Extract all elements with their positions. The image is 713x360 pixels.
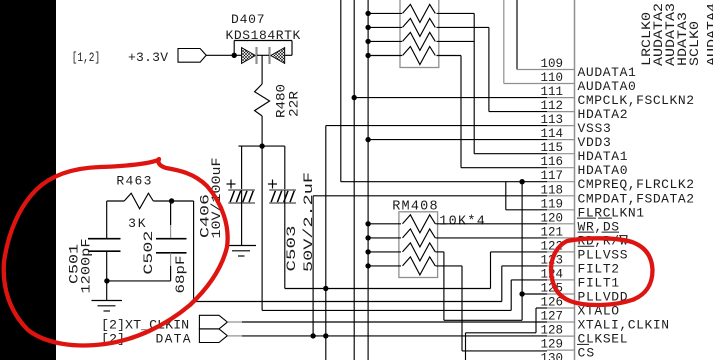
label 68pF xyxy=(173,256,188,294)
pin 118 stub xyxy=(547,195,575,197)
wire RM407 r1 to pin 115 xyxy=(437,13,548,153)
IC U401 left border xyxy=(574,0,576,360)
pin number 122 xyxy=(541,239,564,253)
connector XT_CLKIN xyxy=(199,315,227,329)
pin 126 stub xyxy=(547,307,575,309)
node A (+3.3V filtered) xyxy=(259,143,264,148)
svg-text:D407: D407 xyxy=(231,12,265,27)
label D407 xyxy=(231,12,265,27)
pin number 113 xyxy=(541,113,564,127)
pin number 126 xyxy=(541,296,564,310)
wire R463 right xyxy=(153,200,193,202)
svg-text:1200pF: 1200pF xyxy=(79,239,94,294)
pin number 118 xyxy=(541,183,564,197)
svg-text:+3.3V: +3.3V xyxy=(128,50,168,65)
junction RM408 row 1 xyxy=(365,221,370,226)
ground C501 xyxy=(92,301,123,312)
pin number 124 xyxy=(541,267,564,281)
pin 111 name CMPCLK,FSCLKN2 xyxy=(578,93,695,108)
IC top pin label AUDATA4 xyxy=(704,3,713,66)
wire node A drop xyxy=(261,146,263,310)
junction RM407 row 2 xyxy=(365,25,370,30)
svg-text:AUDATA4: AUDATA4 xyxy=(704,3,713,66)
label C406 xyxy=(198,194,213,238)
wire RM408 r4 to CS xyxy=(436,266,548,351)
ground C406 xyxy=(226,246,256,257)
resistor pack RM408 element 2 xyxy=(403,229,436,247)
pin number 109 xyxy=(541,57,564,71)
diode D407a (left half) xyxy=(242,48,256,64)
diode D407b (right half) xyxy=(271,48,285,64)
label R480 xyxy=(274,84,289,118)
wire RM407 r2 to pin 112 xyxy=(437,27,548,111)
svg-text:AUDATA1: AUDATA1 xyxy=(578,65,636,80)
wire C501 down xyxy=(106,251,108,300)
pin 121 name RD,R/W xyxy=(578,233,628,248)
svg-text:68pF: 68pF xyxy=(173,256,188,294)
capacitor C503 xyxy=(269,190,296,203)
label [1,2] xyxy=(72,51,101,65)
wire DATA to pin 128 xyxy=(227,335,547,337)
pin number 120 xyxy=(541,211,564,225)
wire FILT2 riser xyxy=(502,266,547,302)
pin 116 stub xyxy=(547,167,575,169)
wire node to C503 xyxy=(284,146,286,190)
wire RM407 row 3 left xyxy=(368,40,402,42)
IC top pin label SCLK0 xyxy=(687,21,702,66)
svg-text:127: 127 xyxy=(541,310,564,324)
power arrow symbol +3.3V xyxy=(178,49,206,63)
svg-text:130: 130 xyxy=(541,352,564,360)
wire FILT1 riser xyxy=(511,280,547,311)
wire D407 anode loop xyxy=(234,41,292,56)
pin 125 stub xyxy=(547,293,575,295)
wire node A horizontal xyxy=(238,145,284,147)
pin 112 stub xyxy=(547,111,575,113)
wire C501-C502 bottom link xyxy=(107,280,171,282)
label 10V/100uF xyxy=(209,158,224,239)
bus wire B3 VDD xyxy=(367,0,369,360)
wire C503 down xyxy=(284,190,286,289)
junction DATA/VSS crossing xyxy=(323,333,328,338)
IC top pin label LRCLK0 xyxy=(639,12,654,66)
pin 115 name HDATA1 xyxy=(578,149,628,164)
label 1200pF xyxy=(79,239,94,294)
resistor pack RM407 element 3 xyxy=(403,32,436,50)
red annotation loop (filter cluster) xyxy=(4,159,228,345)
wire RM408 row 4 left xyxy=(368,265,401,267)
svg-text:50V/2.2uF: 50V/2.2uF xyxy=(301,172,316,272)
wire pin 118 riser xyxy=(312,196,314,336)
junction RM408 row 3 xyxy=(365,249,370,254)
label C503 xyxy=(284,226,299,272)
label +3.3V xyxy=(128,50,168,65)
resistor pack RM408 element 3 xyxy=(403,243,436,261)
wire C503 to PLLVSS run xyxy=(285,288,491,290)
wire pin 113 VSS3 xyxy=(326,125,547,127)
svg-text:119: 119 xyxy=(541,197,564,211)
bus wire B2 xyxy=(353,0,355,360)
junction R463/C502 node xyxy=(169,198,174,203)
pin number 127 xyxy=(541,310,564,324)
junction DATA/CMPDAT xyxy=(310,333,315,338)
bus wire B1 xyxy=(340,0,342,182)
pin 110 name AUDATA0 xyxy=(578,79,636,94)
pin 128 name CLKSEL xyxy=(577,332,628,347)
pin 110 stub xyxy=(547,83,575,85)
wire RM408 row 3 left xyxy=(368,251,401,253)
svg-text:[1,2]: [1,2] xyxy=(72,51,101,65)
wire RM408 r1 to pin 120 xyxy=(436,223,548,225)
pin 120 name WR,DS xyxy=(578,219,620,234)
wire pin 118 CMPDAT xyxy=(313,195,547,197)
wire D407 to R480 xyxy=(261,55,263,84)
pin 124 name FILT1 xyxy=(578,275,620,290)
wire RM408 row 1 left xyxy=(368,223,401,225)
pin 112 name HDATA2 xyxy=(578,107,628,122)
label [2] xyxy=(101,331,125,346)
pin 129 name CS xyxy=(578,346,595,360)
resistor pack RM408 element 1 xyxy=(403,215,436,233)
svg-text:VDD3: VDD3 xyxy=(578,135,611,150)
pin 119 stub xyxy=(547,209,575,211)
pin 114 stub xyxy=(547,139,575,141)
junction CMPREQ/PLLVDD riser xyxy=(519,179,524,184)
pin number 121 xyxy=(541,225,564,239)
label 3K xyxy=(128,216,146,231)
wire pin 117 CMPREQ xyxy=(341,181,547,183)
label [2]XT_CLKIN xyxy=(101,317,189,332)
wire XTALO feed xyxy=(466,308,548,360)
wire RM407 row 4 left xyxy=(368,55,402,57)
svg-text:HDATA0: HDATA0 xyxy=(578,163,628,178)
svg-text:118: 118 xyxy=(541,183,564,197)
svg-text:CMPDAT,FSDATA2: CMPDAT,FSDATA2 xyxy=(578,191,695,206)
svg-text:AUDATA0: AUDATA0 xyxy=(578,79,636,94)
junction C501/C502 bottom xyxy=(104,278,109,283)
junction VSS drop on PLLVSS run xyxy=(323,286,328,291)
label KDS184RTK xyxy=(226,28,301,43)
pin number 116 xyxy=(541,155,564,169)
svg-text:22R: 22R xyxy=(287,91,302,117)
wire RM407 row 2 left xyxy=(368,26,402,28)
wire pin 111 CMPCLK xyxy=(354,97,547,99)
wire C502 top xyxy=(170,201,172,239)
pin 126 name XTALO xyxy=(578,304,620,319)
wire R463 left down to C501 xyxy=(106,201,108,239)
pin number 129 xyxy=(541,338,564,352)
capacitor C501 xyxy=(88,239,121,252)
wire PLLVDD vertical xyxy=(521,182,523,321)
pin 109 name AUDATA1 xyxy=(578,65,636,80)
pin number 123 xyxy=(541,253,564,267)
capacitor C406 plus sign xyxy=(227,180,236,189)
svg-text:116: 116 xyxy=(541,155,564,169)
junction pin 111 xyxy=(352,95,357,100)
resistor R463 xyxy=(124,193,153,209)
svg-text:VSS3: VSS3 xyxy=(578,121,611,136)
wire XT_CLKIN to pin 127 xyxy=(227,321,547,323)
junction RM407 row 3 xyxy=(365,39,370,44)
wire FILT2 run xyxy=(194,301,502,303)
IC top pin label AUDATA2 xyxy=(651,3,666,66)
svg-text:117: 117 xyxy=(541,169,564,183)
wire R463 left xyxy=(107,200,125,202)
junction +3.3V node xyxy=(232,53,237,58)
pin 120 stub xyxy=(547,223,575,225)
wire pin 114 VDD3 xyxy=(368,139,547,141)
svg-text:HDATA2: HDATA2 xyxy=(578,107,628,122)
IC top pin label AUDATA3 xyxy=(663,3,678,66)
pin 117 name CMPREQ,FLRCLK2 xyxy=(578,177,695,192)
pin 116 name HDATA0 xyxy=(578,163,628,178)
resistor pack RM407 box xyxy=(400,0,439,68)
svg-text:[2]XT_CLKIN: [2]XT_CLKIN xyxy=(101,317,189,332)
label R463 xyxy=(116,173,151,188)
diode D407b cathode bar xyxy=(268,47,270,64)
pin 115 stub xyxy=(547,153,575,155)
svg-text:SCLK0: SCLK0 xyxy=(687,21,702,66)
pin 122 stub xyxy=(547,251,575,253)
pin 114 name VDD3 xyxy=(578,135,611,150)
wire D407 common cathode xyxy=(257,54,269,56)
pin number 128 xyxy=(541,324,564,338)
wire R480 to node xyxy=(261,116,263,146)
pin 124 stub xyxy=(547,279,575,281)
pin 122 name PLLVSS xyxy=(578,247,628,262)
pin 113 stub xyxy=(547,125,575,127)
wire RM408 r2 to pin 121 xyxy=(436,237,548,239)
pin number 130 xyxy=(541,352,564,360)
resistor pack RM407 element 2 xyxy=(403,18,436,36)
junction RM408 row 4 xyxy=(365,263,370,268)
wire PLLVSS riser xyxy=(490,252,492,289)
pin 127 name XTALI,CLKIN xyxy=(578,318,670,333)
pin 118 name CMPDAT,FSDATA2 xyxy=(578,191,695,206)
pin 129 stub xyxy=(547,349,575,351)
junction pin 114 xyxy=(365,137,370,142)
pin 123 stub xyxy=(547,265,575,267)
label 10K*4 xyxy=(439,215,485,230)
wire +3.3V to D407 xyxy=(206,54,241,56)
svg-text:111: 111 xyxy=(541,85,564,99)
wire pin 110 riser xyxy=(504,0,548,84)
capacitor C406 xyxy=(228,190,255,203)
resistor pack RM408 element 4 xyxy=(403,257,436,275)
resistor pack RM407 element 1 xyxy=(403,4,436,22)
pin 125 name PLLVDD xyxy=(578,290,628,305)
pin number 119 xyxy=(541,197,564,211)
wire RM408 r3 to PLLVDD xyxy=(436,252,548,320)
svg-text:114: 114 xyxy=(541,127,564,141)
pin number 115 xyxy=(541,141,564,155)
svg-text:126: 126 xyxy=(541,296,564,310)
svg-text:129: 129 xyxy=(541,338,564,352)
svg-text:3K: 3K xyxy=(128,216,146,231)
wire node to C406 xyxy=(241,146,243,190)
junction RM407 row 4 xyxy=(365,53,370,58)
junction PLLVDD branch xyxy=(519,291,524,296)
pin 123 name FILT2 xyxy=(578,261,620,276)
pin number 111 xyxy=(541,85,564,99)
label DATA xyxy=(156,331,191,346)
wire pin 109 riser xyxy=(517,0,548,70)
svg-text:FILT1: FILT1 xyxy=(578,275,620,290)
wire RM408 row 2 left xyxy=(368,237,401,239)
svg-text:10K*4: 10K*4 xyxy=(439,215,485,230)
wire pin 119 riser xyxy=(506,182,547,210)
wire FILT2 drop from R463 node xyxy=(193,201,195,302)
svg-text:PLLVSS: PLLVSS xyxy=(578,247,628,262)
pin number 117 xyxy=(541,169,564,183)
label 22R xyxy=(287,91,302,117)
resistor pack RM408 box xyxy=(399,212,438,278)
pin 111 stub xyxy=(547,97,575,99)
diode D407a cathode bar xyxy=(255,47,257,64)
pin 119 name FLRCLKN1 xyxy=(577,205,644,220)
pin 121 stub xyxy=(547,237,575,239)
svg-text:115: 115 xyxy=(541,141,564,155)
svg-text:121: 121 xyxy=(541,225,564,239)
pin 128 stub xyxy=(547,335,575,337)
svg-text:C503: C503 xyxy=(284,226,299,272)
junction RM407 row 1 xyxy=(365,11,370,16)
label RM408 xyxy=(392,199,437,214)
wire FILT1 run xyxy=(262,309,511,311)
pin 109 stub xyxy=(547,69,575,71)
svg-text:C502: C502 xyxy=(141,231,156,275)
label C502 xyxy=(141,231,156,275)
svg-text:120: 120 xyxy=(541,211,564,225)
resistor R480 xyxy=(255,84,270,116)
label 50V/2.2uF xyxy=(301,172,316,272)
wire pin 122 PLLVSS xyxy=(491,251,548,253)
svg-text:FILT2: FILT2 xyxy=(578,261,620,276)
svg-text:CS: CS xyxy=(578,346,595,360)
pin 127 stub xyxy=(547,321,575,323)
pin number 112 xyxy=(541,99,564,113)
wire RM407 r4 to pin 116 xyxy=(437,56,548,168)
capacitor C502 xyxy=(156,239,187,253)
label C501 xyxy=(67,244,82,284)
svg-text:CMPCLK,FSCLKN2: CMPCLK,FSCLKN2 xyxy=(578,93,695,108)
connector DATA xyxy=(199,329,227,343)
pin 117 stub xyxy=(547,181,575,183)
pin 113 name VSS3 xyxy=(578,121,611,136)
IC top pin label HDATA3 xyxy=(675,12,690,66)
red annotation loop (PLL pins) xyxy=(551,238,653,305)
capacitor C503 plus sign xyxy=(268,180,277,189)
wire VSS3 drop xyxy=(325,126,327,360)
pin number 125 xyxy=(541,282,564,296)
junction RM408 row 2 xyxy=(365,235,370,240)
black masked region left margin xyxy=(0,0,56,360)
svg-text:R463: R463 xyxy=(116,173,151,188)
svg-text:CMPREQ,FLRCLK2: CMPREQ,FLRCLK2 xyxy=(578,177,695,192)
wire C502 bottom xyxy=(170,253,172,281)
svg-text:HDATA1: HDATA1 xyxy=(578,149,628,164)
svg-text:DATA: DATA xyxy=(156,331,191,346)
resistor pack RM407 element 4 xyxy=(403,47,436,65)
svg-text:XTALI,CLKIN: XTALI,CLKIN xyxy=(578,318,670,333)
wire RM407 r3 lead xyxy=(437,40,475,42)
wire RM407 row 1 left xyxy=(368,12,402,14)
svg-text:113: 113 xyxy=(541,113,564,127)
pin number 110 xyxy=(541,71,564,85)
svg-text:112: 112 xyxy=(541,99,564,113)
pin number 114 xyxy=(541,127,564,141)
wire C406 to ground xyxy=(241,190,243,245)
